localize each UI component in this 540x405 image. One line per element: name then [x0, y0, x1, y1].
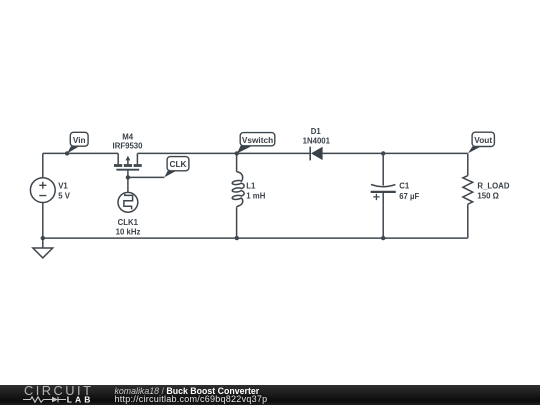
svg-text:L1: L1	[246, 182, 256, 191]
flag CLK	[164, 157, 189, 178]
svg-text:IRF9530: IRF9530	[113, 141, 144, 150]
wire top rail right segment	[323, 152, 468, 154]
svg-text:D1: D1	[311, 127, 322, 136]
node gate junction	[126, 175, 130, 179]
svg-text:R_LOAD: R_LOAD	[477, 182, 509, 191]
wire bottom rail	[43, 237, 468, 239]
svg-text:1 mH: 1 mH	[246, 192, 265, 201]
capacitor C1	[371, 153, 396, 238]
node Vswitch junction	[235, 151, 239, 155]
flag Vswitch	[237, 133, 275, 154]
svg-text:CLK: CLK	[169, 159, 186, 169]
wire top rail middle segment	[137, 152, 310, 154]
inductor L1	[232, 153, 244, 238]
flag Vout	[468, 132, 494, 153]
junction ground node	[41, 236, 45, 240]
svg-text:150 Ω: 150 Ω	[477, 192, 498, 201]
svg-text:5 V: 5 V	[58, 192, 71, 201]
wire top rail left segment	[43, 152, 118, 154]
CircuitLab logo	[0, 385, 100, 405]
wire gate down to CLK1	[127, 177, 129, 192]
flag Vin	[67, 132, 88, 153]
node Vin anchor	[65, 151, 69, 155]
node L1 bottom junction	[235, 236, 239, 240]
svg-text:10 kHz: 10 kHz	[116, 227, 141, 236]
svg-text:V1: V1	[58, 182, 68, 191]
diode D1	[310, 147, 322, 161]
svg-text:C1: C1	[399, 182, 410, 191]
voltage source V1	[30, 178, 70, 203]
resistor R_LOAD	[463, 153, 473, 238]
clock source CLK1	[118, 192, 138, 212]
footer bar	[0, 385, 540, 405]
node C1 top junction	[381, 151, 385, 155]
svg-text:Vout: Vout	[474, 135, 492, 145]
svg-text:Vswitch: Vswitch	[242, 135, 273, 145]
svg-text:67 µF: 67 µF	[399, 192, 419, 201]
transistor M4	[114, 153, 142, 177]
svg-text:CLK1: CLK1	[118, 218, 139, 227]
wire left rail lower	[42, 203, 44, 239]
svg-text:LAB: LAB	[67, 394, 94, 404]
node C1 bottom junction	[381, 236, 385, 240]
ground	[33, 238, 53, 258]
svg-text:Vin: Vin	[73, 135, 86, 145]
svg-text:1N4001: 1N4001	[303, 136, 331, 145]
svg-text:M4: M4	[122, 132, 133, 141]
wire gate to CLK flag	[128, 176, 164, 178]
wire left rail upper	[42, 153, 44, 177]
